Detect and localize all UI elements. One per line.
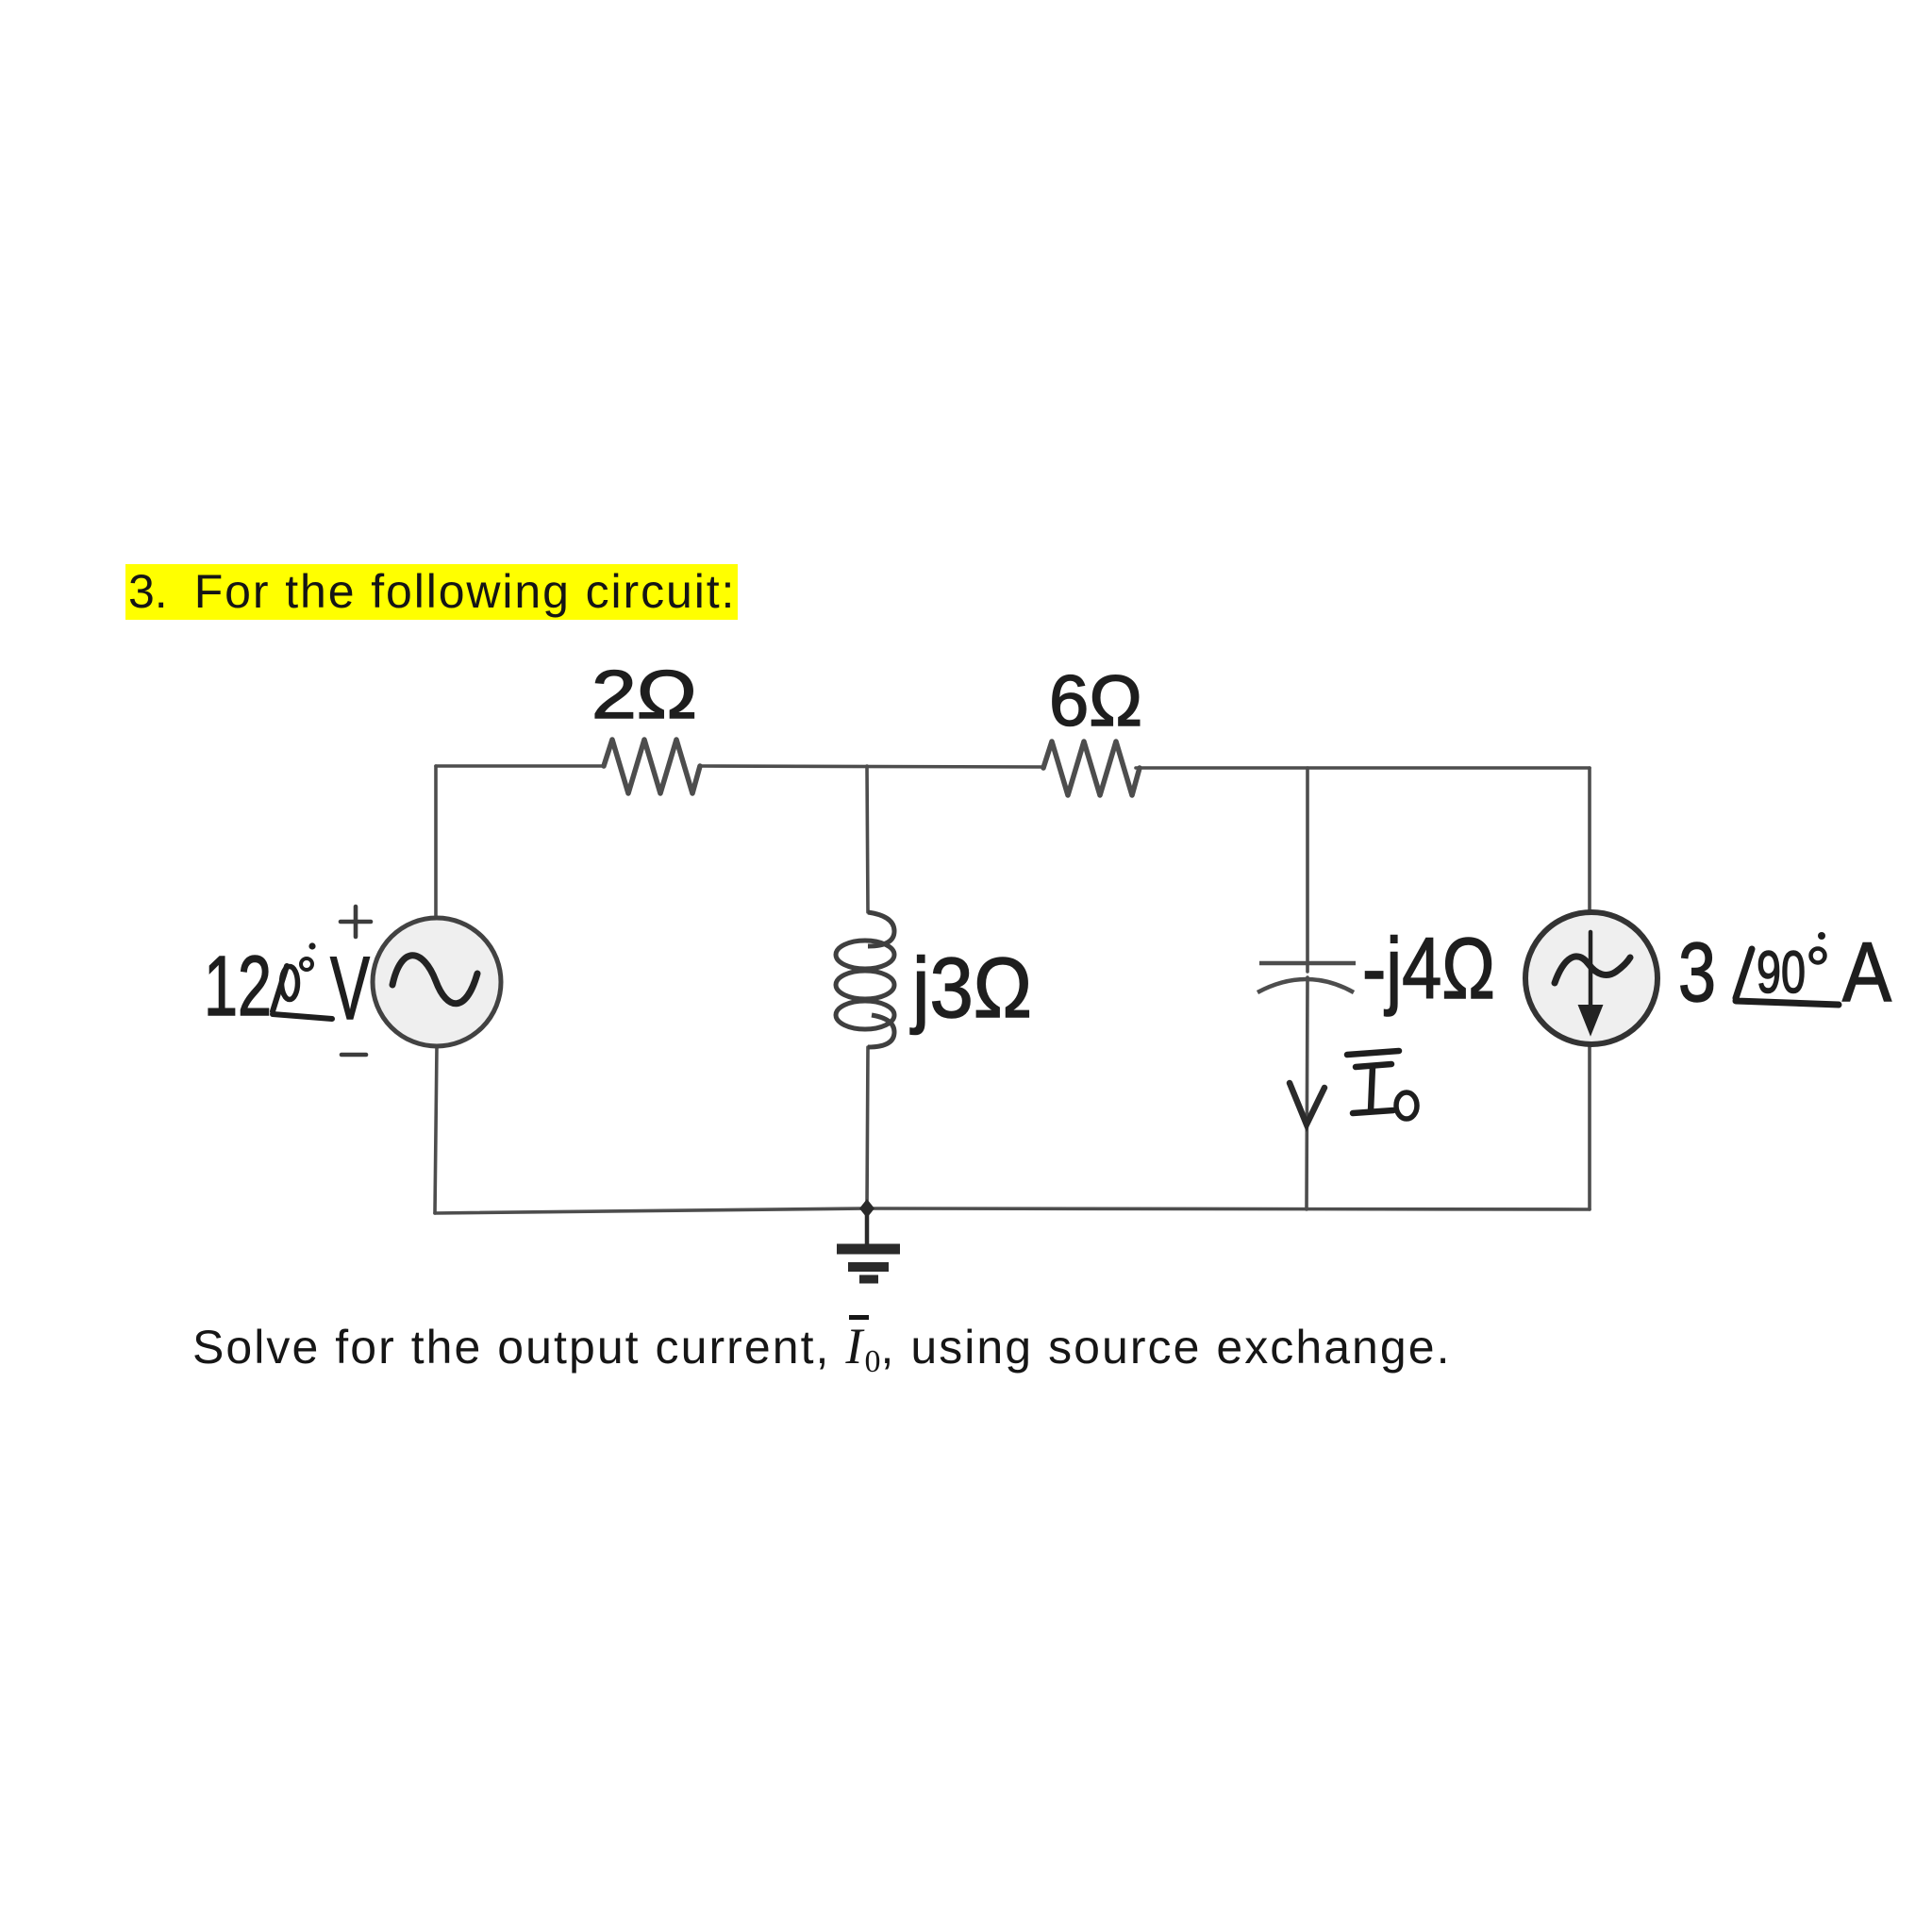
svg-text:V: V [330, 939, 370, 1039]
svg-text:3: 3 [1678, 924, 1716, 1019]
svg-text:-j4Ω: -j4Ω [1362, 921, 1495, 1017]
svg-text:6Ω: 6Ω [1049, 661, 1142, 741]
svg-text:2Ω: 2Ω [591, 658, 697, 733]
svg-text:90: 90 [1757, 940, 1806, 1006]
svg-text:j3Ω: j3Ω [909, 941, 1032, 1036]
svg-text:12: 12 [204, 940, 272, 1034]
svg-text:A: A [1842, 924, 1892, 1019]
